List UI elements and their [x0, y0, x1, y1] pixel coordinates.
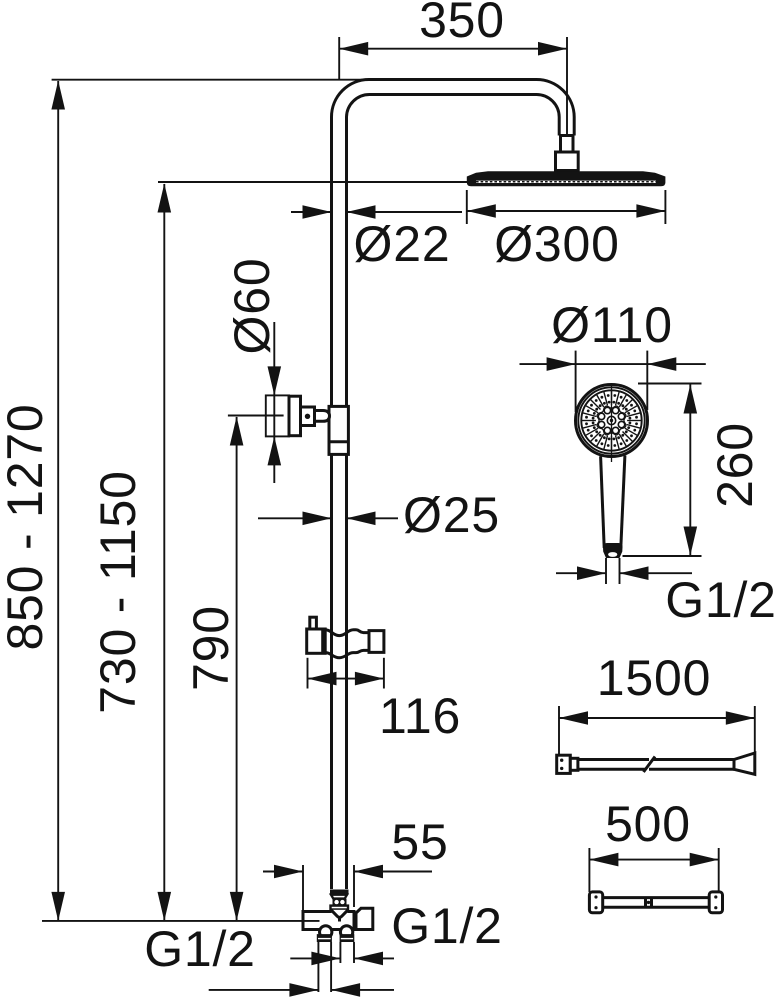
- svg-text:850 - 1270: 850 - 1270: [0, 403, 53, 650]
- svg-text:1500: 1500: [597, 650, 711, 706]
- svg-text:350: 350: [419, 0, 505, 48]
- svg-text:Ø22: Ø22: [354, 216, 451, 272]
- svg-text:500: 500: [605, 796, 691, 852]
- svg-text:Ø25: Ø25: [403, 487, 500, 543]
- svg-text:55: 55: [391, 814, 448, 870]
- svg-text:Ø110: Ø110: [551, 297, 673, 353]
- svg-text:G1/2: G1/2: [144, 921, 256, 977]
- svg-text:116: 116: [379, 688, 461, 744]
- svg-text:260: 260: [707, 422, 763, 508]
- svg-text:790: 790: [183, 605, 239, 691]
- svg-text:Ø60: Ø60: [224, 258, 280, 355]
- svg-text:730 - 1150: 730 - 1150: [90, 470, 146, 713]
- svg-text:G1/2: G1/2: [665, 572, 775, 628]
- svg-text:Ø300: Ø300: [494, 216, 620, 272]
- svg-text:G1/2: G1/2: [391, 898, 503, 954]
